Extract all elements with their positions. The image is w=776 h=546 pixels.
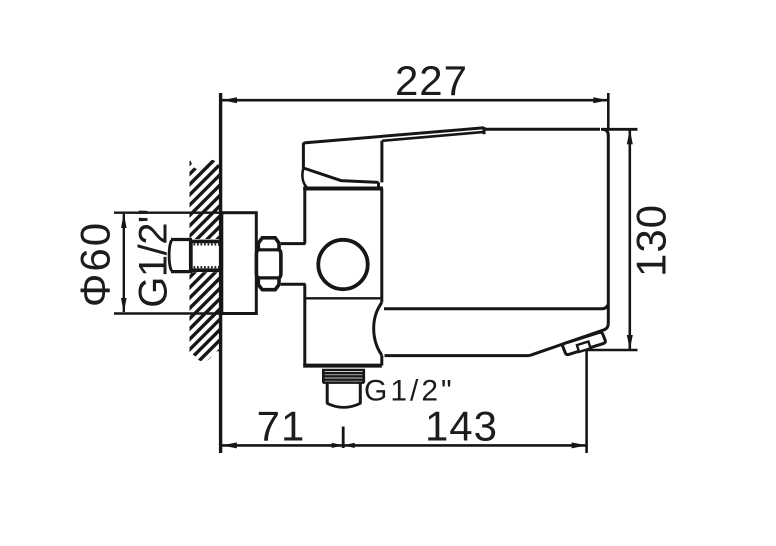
escutcheon flange on wall [222,213,256,314]
valve column body [303,189,383,366]
svg-text:130: 130 [628,204,675,277]
bottom dimension line 71 / 143 [222,427,587,449]
division line [306,297,382,299]
internal line between barrel and spout [384,305,608,309]
svg-text:Φ60: Φ60 [72,221,119,307]
base arc [374,303,382,356]
spout [374,303,606,356]
phi60 dimension line with arrows [121,213,127,313]
bottom outlet stub [327,383,362,408]
dimension 130 right [588,129,638,350]
mouth notch [577,342,591,352]
svg-text:227: 227 [395,57,468,104]
pipe stub left of wall [169,240,192,272]
underside diagonal [530,329,606,355]
svg-text:G1/2": G1/2" [132,209,176,307]
main body barrel [384,129,608,329]
svg-text:71: 71 [257,403,306,450]
bottom outlet thread [322,369,365,383]
right extension line for 227 [607,93,610,130]
wall surface line / left extension line [219,93,222,453]
handle grip [302,127,484,189]
wall hatched section [190,156,221,362]
hex nut on wall connector [256,238,281,290]
mouth piece [563,332,606,354]
bottom line [385,354,530,357]
threaded nipple through wall (white cutout) [189,239,222,272]
column bottom [303,364,382,368]
phi60 extension lines [114,211,222,213]
pivot arc at grip base [302,168,308,189]
diverter circle [318,240,367,289]
right extension line for 143 [585,350,588,453]
dimension 227 top [222,97,608,103]
svg-text:143: 143 [425,403,498,450]
cap line [303,187,383,191]
connector stub between nut and valve body [281,244,306,285]
